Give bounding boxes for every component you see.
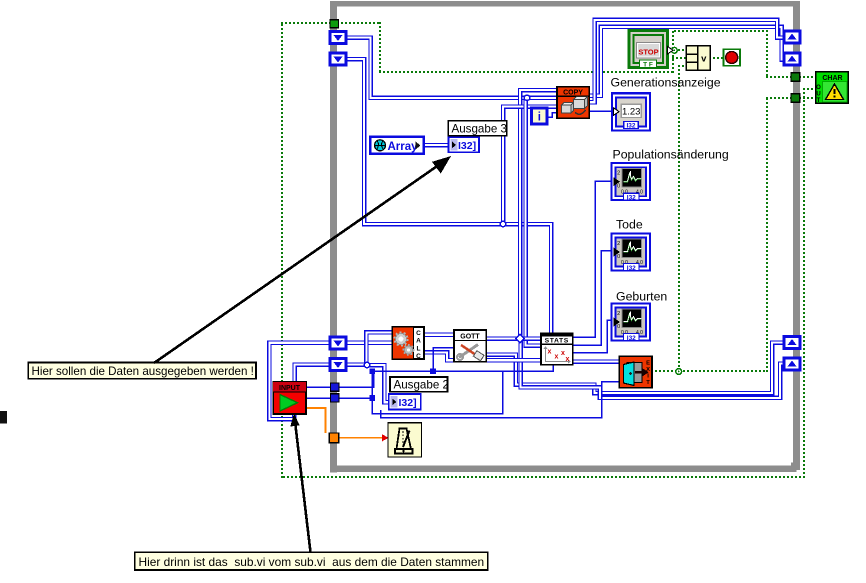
svg-text:I32]: I32]	[458, 140, 476, 152]
chart indicator Populationsaenderung	[612, 163, 651, 201]
svg-text:x: x	[566, 356, 570, 363]
wire error from EXIT to tunnel T2	[651, 97, 792, 372]
wire array COPY upper-left down to diamond junction	[520, 90, 557, 339]
svg-text:C: C	[416, 330, 421, 337]
svg-text:Populationsänderung: Populationsänderung	[613, 148, 729, 162]
subVI GOTT	[454, 330, 486, 362]
svg-text:2: 2	[617, 171, 620, 177]
wire from tunnel to junction	[339, 397, 372, 399]
shift register left SR4	[330, 359, 346, 371]
wire array SR4 around to INPUT top	[295, 365, 330, 383]
subVI CALC	[392, 327, 424, 360]
wire array STATS to EXIT	[573, 359, 620, 364]
stop button indicator	[724, 49, 741, 66]
wire array Array global to Ausgabe3 terminal	[424, 143, 448, 148]
wire array junction down to STATS left	[526, 98, 542, 346]
shift register right up4	[784, 358, 800, 370]
wire tunnel T1 to CHAR OUT pin1	[799, 76, 817, 78]
svg-text:T F: T F	[643, 62, 653, 69]
tunnel boolean green on left border	[330, 20, 338, 28]
label Ausgabe 3	[448, 121, 507, 136]
chart indicator Geburten	[612, 304, 651, 342]
junction circle near SR4	[364, 362, 369, 367]
svg-text:T: T	[817, 98, 821, 104]
svg-text:A: A	[416, 338, 421, 345]
svg-text:v: v	[701, 54, 707, 65]
svg-text:0: 0	[617, 324, 620, 330]
wire tunnel to scalar bus	[339, 373, 374, 388]
wire STATS to chart 1	[573, 181, 612, 337]
red arrowhead into metronome	[382, 434, 389, 441]
callout box 1	[28, 363, 256, 379]
svg-text:I32: I32	[627, 195, 636, 202]
shift register right up2	[784, 53, 800, 65]
wire boolean feedback loop around frame	[281, 24, 805, 478]
svg-text:x: x	[561, 350, 565, 357]
svg-text:x: x	[548, 349, 552, 356]
wait timer metronome	[388, 423, 422, 457]
annotation arrow to INPUT	[290, 413, 310, 552]
wire scalar branch to GOTT	[433, 348, 454, 372]
svg-text:I32: I32	[626, 123, 635, 130]
boolean control STOP	[629, 31, 673, 69]
svg-text:O: O	[816, 85, 821, 91]
wire scalar loop below Ausgabe2	[372, 371, 503, 413]
wire array CALC upper input from circle junction	[366, 332, 392, 365]
svg-text:Ausgabe 2: Ausgabe 2	[394, 378, 449, 391]
shift register right up1	[784, 31, 800, 43]
wire STATS to chart 3	[573, 320, 612, 352]
junction green ring on error wire	[676, 369, 682, 375]
tunnel error green T2 right border	[791, 94, 800, 102]
wire to OR input 3	[678, 65, 684, 67]
svg-text:STATS: STATS	[545, 338, 569, 345]
annotation arrow to Ausgabe 3	[154, 156, 451, 363]
svg-text:Hier drinn ist das sub.vi vom: Hier drinn ist das sub.vi vom sub.vi aus…	[139, 555, 485, 569]
wire array SR1 to COPY mid input	[346, 38, 557, 98]
tunnel orange on left border	[329, 433, 339, 443]
wire array diamond down to right SR up2	[521, 339, 785, 398]
wire STATS to chart 2	[573, 251, 612, 345]
subVI INPUT	[273, 382, 306, 414]
wire array COPY out to top SR up1	[589, 20, 784, 102]
wire INPUT out 1 to tunnel	[306, 386, 331, 388]
wire array SR2 to STATS top	[346, 59, 551, 334]
subVI STATS	[541, 333, 573, 364]
svg-text:L: L	[417, 345, 421, 352]
wire array GOTT to STATS	[486, 336, 541, 341]
wire array COPY out to top SR up2	[589, 27, 784, 96]
svg-text:CHAR: CHAR	[822, 75, 842, 82]
wire boolean top to right tunnel	[674, 30, 768, 32]
junction dot	[369, 369, 375, 375]
svg-text:Array: Array	[388, 141, 419, 153]
svg-text:Hier sollen die Daten ausgegeb: Hier sollen die Daten ausgegeben werden …	[32, 365, 254, 378]
junction diamond	[516, 334, 525, 343]
svg-text:U: U	[816, 92, 820, 98]
junction circle (array)	[500, 221, 505, 226]
wire INPUT out 2 to tunnel	[306, 397, 331, 399]
subVI CHAR OUT	[816, 72, 849, 104]
wire STATS bottom scalar bus	[372, 365, 553, 372]
while loop frame	[330, 1, 800, 473]
wire array SR3 to CALC lower input	[346, 340, 392, 345]
svg-text:C: C	[416, 353, 421, 360]
shift register left SR1	[330, 32, 346, 44]
junction circle (array)	[524, 95, 529, 100]
wire OR output to stop button	[709, 57, 723, 59]
junction green ring at STOP output	[671, 47, 677, 53]
svg-text:Tode: Tode	[616, 218, 643, 232]
svg-text:0: 0	[617, 184, 620, 190]
svg-text:I32: I32	[627, 265, 636, 272]
tunnel blue scalar 1 left border	[331, 383, 339, 391]
wire COPY to numeric indicator	[589, 110, 613, 112]
svg-text:COPY: COPY	[563, 89, 583, 96]
wire array COPY lower-left to junction	[503, 107, 557, 224]
svg-text:E: E	[646, 361, 650, 367]
label Ausgabe 2	[390, 377, 449, 392]
shift register right up3	[784, 337, 800, 349]
wire error up from EXIT junction	[678, 65, 680, 371]
svg-text:INPUT: INPUT	[279, 385, 301, 392]
svg-text:2: 2	[617, 311, 620, 317]
wire ms timer from INPUT	[306, 408, 326, 433]
svg-text:0: 0	[617, 254, 620, 260]
svg-text:GOTT: GOTT	[460, 334, 480, 341]
svg-text:I32]: I32]	[399, 397, 417, 409]
svg-text:Geburten: Geburten	[616, 290, 667, 304]
svg-text:1.23: 1.23	[622, 107, 641, 118]
tunnel error green T1 right border	[791, 73, 800, 81]
svg-text:i: i	[538, 112, 541, 124]
wire tunnel T2 to CHAR OUT pin3	[799, 97, 817, 99]
compound arithmetic OR node	[686, 46, 710, 71]
wire i terminal to COPY	[547, 113, 557, 118]
wire boolean from tunnel to OR node	[337, 22, 674, 73]
svg-text:Ausgabe 3: Ausgabe 3	[452, 122, 507, 135]
wire array junction to Ausgabe2 terminal	[367, 365, 389, 402]
svg-text:Generationsanzeige: Generationsanzeige	[611, 76, 721, 90]
shift register left SR2	[330, 53, 346, 65]
wire to OR input 2	[672, 57, 686, 59]
wire array SR4 to circle junction	[346, 362, 367, 367]
shift register left SR3	[330, 337, 346, 349]
svg-text:x: x	[555, 354, 559, 361]
wire STOP output to OR input 1	[666, 49, 684, 51]
clipped mark at screen left edge	[0, 411, 7, 424]
wire scalar to EXIT lower input	[381, 382, 620, 418]
wire boolean into loop tunnel	[281, 22, 331, 24]
wire array CALC lower out to STATS lower left	[424, 352, 541, 360]
svg-text:STOP: STOP	[638, 48, 658, 57]
wire array SR3 around to INPUT bottom	[269, 343, 330, 419]
wire to CHAR OUT pin2	[803, 88, 813, 90]
chart indicator Tode	[612, 234, 651, 272]
junction dot	[369, 395, 375, 401]
svg-text:2: 2	[617, 241, 620, 247]
junction dot	[430, 369, 436, 375]
subVI COPY	[557, 87, 589, 119]
global variable Array	[370, 137, 424, 154]
callout box 2	[135, 552, 488, 570]
wire array CALC to GOTT	[424, 332, 454, 337]
wire boolean down to tunnel T1	[766, 30, 792, 78]
indicator terminal Ausgabe 2 I32 array	[389, 394, 421, 409]
indicator terminal Ausgabe 3 I32 array	[448, 137, 479, 152]
wire orange tunnel to metronome	[339, 437, 384, 439]
subVI EXIT	[619, 356, 652, 388]
svg-text:I32: I32	[627, 335, 636, 342]
wire array GOTT lower out to right SR up1	[486, 343, 784, 394]
svg-text:T: T	[646, 380, 650, 386]
tunnel blue scalar 2 left border	[331, 394, 339, 402]
numeric indicator Generationsanzeige 1.23	[612, 93, 650, 130]
iteration terminal i	[532, 108, 548, 124]
